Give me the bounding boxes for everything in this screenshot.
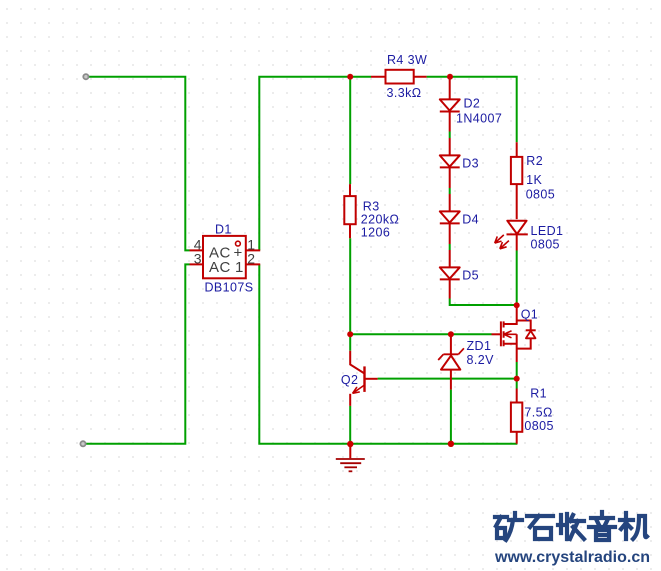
label R1 0805: [524, 419, 553, 433]
label 1N4007: [456, 112, 502, 126]
label Q1: [521, 308, 538, 322]
svg-text:AC: AC: [209, 259, 231, 276]
svg-text:Q1: Q1: [521, 308, 538, 322]
label 8.2V: [467, 353, 495, 367]
resistor R3: [344, 184, 355, 238]
wire diode chain D3-D4 gap: [449, 188, 451, 194]
label R2 0805: [526, 188, 555, 202]
label 220kΩ: [361, 213, 399, 227]
wire Q2 emitter to GND rail: [349, 406, 351, 444]
svg-text:D4: D4: [462, 213, 479, 227]
svg-text:3.3kΩ: 3.3kΩ: [387, 86, 422, 100]
label Q2: [341, 373, 358, 387]
svg-text:3: 3: [194, 251, 202, 267]
wire diode chain D2-D3 gap: [449, 132, 451, 139]
label DB107S: [205, 281, 254, 295]
label LED1: [531, 224, 564, 238]
label R2: [526, 154, 543, 168]
diode D2: [440, 77, 460, 132]
diode D4: [440, 194, 460, 244]
svg-text:0805: 0805: [531, 238, 560, 252]
junction top rail D2 node: [447, 74, 453, 80]
resistor R4: [371, 70, 427, 84]
label ZD1: [467, 339, 492, 353]
wire Q1 source to sense node: [516, 362, 518, 379]
svg-text:1N4007: 1N4007: [456, 112, 502, 126]
label 3.3kΩ: [387, 86, 422, 100]
svg-text:www.crystalradio.cn: www.crystalradio.cn: [494, 549, 650, 566]
svg-text:D1: D1: [215, 222, 232, 236]
svg-text:D5: D5: [462, 269, 479, 283]
wire V+ net: R3 branch down: [349, 77, 351, 184]
terminal pad top-left: [83, 74, 88, 79]
svg-text:R3: R3: [363, 199, 380, 213]
svg-text:0805: 0805: [526, 188, 555, 202]
wire V+ net: bridge pin1 up and along top rail to R4: [259, 77, 371, 251]
watermark 矿石收音机: [495, 512, 647, 540]
zener diode ZD1: [438, 334, 464, 389]
label D3: [462, 157, 479, 171]
wire D5 cathode to LED node: [450, 299, 517, 306]
mosfet Q1: [492, 318, 536, 363]
label R2 1K: [526, 173, 542, 187]
watermark www.crystalradio.cn: [494, 549, 650, 566]
diode D5: [440, 250, 460, 299]
junction ZD1/GND node: [448, 441, 454, 447]
diode D3: [440, 138, 460, 188]
svg-text:7.5Ω: 7.5Ω: [524, 405, 552, 419]
resistor R1: [511, 389, 522, 444]
junction ground node: [347, 441, 353, 447]
label D4: [462, 213, 479, 227]
wire Q2 collector stub: [349, 334, 351, 350]
wire top rail right of R4 to R2 branch corner: [427, 77, 517, 143]
svg-text:220kΩ: 220kΩ: [361, 213, 399, 227]
label D5: [462, 269, 479, 283]
svg-text:1K: 1K: [526, 173, 542, 187]
resistor R2: [511, 142, 522, 219]
wire sense node to R1 top: [516, 379, 518, 389]
label D1: [215, 222, 232, 236]
svg-text:D3: D3: [462, 157, 479, 171]
wire gate net: R3 bottom to Q1 gate: [350, 238, 491, 334]
LED LED1: [495, 221, 528, 251]
junction top rail R3 node: [347, 74, 353, 80]
wire sense node to Q2 base: [378, 378, 517, 380]
svg-text:R2: R2: [526, 154, 543, 168]
wire GND rail: bridge pin2 down and along bottom to R1: [259, 264, 517, 443]
svg-text:1206: 1206: [361, 226, 390, 240]
wire ZD1 anode to GND rail: [450, 390, 452, 444]
label 7.5Ω: [524, 405, 552, 419]
svg-text:1: 1: [235, 259, 244, 276]
junction gate/ZD1 node: [448, 331, 454, 337]
svg-text:8.2V: 8.2V: [467, 353, 495, 367]
wire diode chain D4-D5 gap: [449, 244, 451, 250]
label R4 3W: [387, 53, 427, 67]
label LED1 0805: [531, 238, 560, 252]
junction gate/R3 node: [347, 331, 353, 337]
svg-text:0805: 0805: [524, 419, 553, 433]
bridge rectifier D1: [190, 236, 261, 278]
label 1206: [361, 226, 390, 240]
svg-text:DB107S: DB107S: [205, 281, 254, 295]
junction source/R1 node: [514, 376, 520, 382]
terminal pad bottom-left: [80, 441, 85, 446]
wire AC2 bottom-left: [86, 264, 190, 443]
wire LED cathode down to node: [516, 251, 518, 306]
svg-text:ZD1: ZD1: [467, 339, 492, 353]
svg-text:D2: D2: [464, 97, 481, 111]
svg-text:LED1: LED1: [531, 224, 564, 238]
wire AC1 top-left: [89, 77, 190, 251]
junction LED/D5 node: [514, 302, 520, 308]
svg-text:R4 3W: R4 3W: [387, 53, 427, 67]
svg-text:2: 2: [247, 251, 255, 267]
wire node to Q1 drain (red pin): [516, 305, 518, 318]
svg-text:R1: R1: [530, 386, 547, 400]
label D2: [464, 97, 481, 111]
label R1: [530, 386, 547, 400]
svg-text:Q2: Q2: [341, 373, 358, 387]
ground: [336, 444, 365, 471]
label R3: [363, 199, 380, 213]
transistor Q2: [350, 351, 377, 406]
